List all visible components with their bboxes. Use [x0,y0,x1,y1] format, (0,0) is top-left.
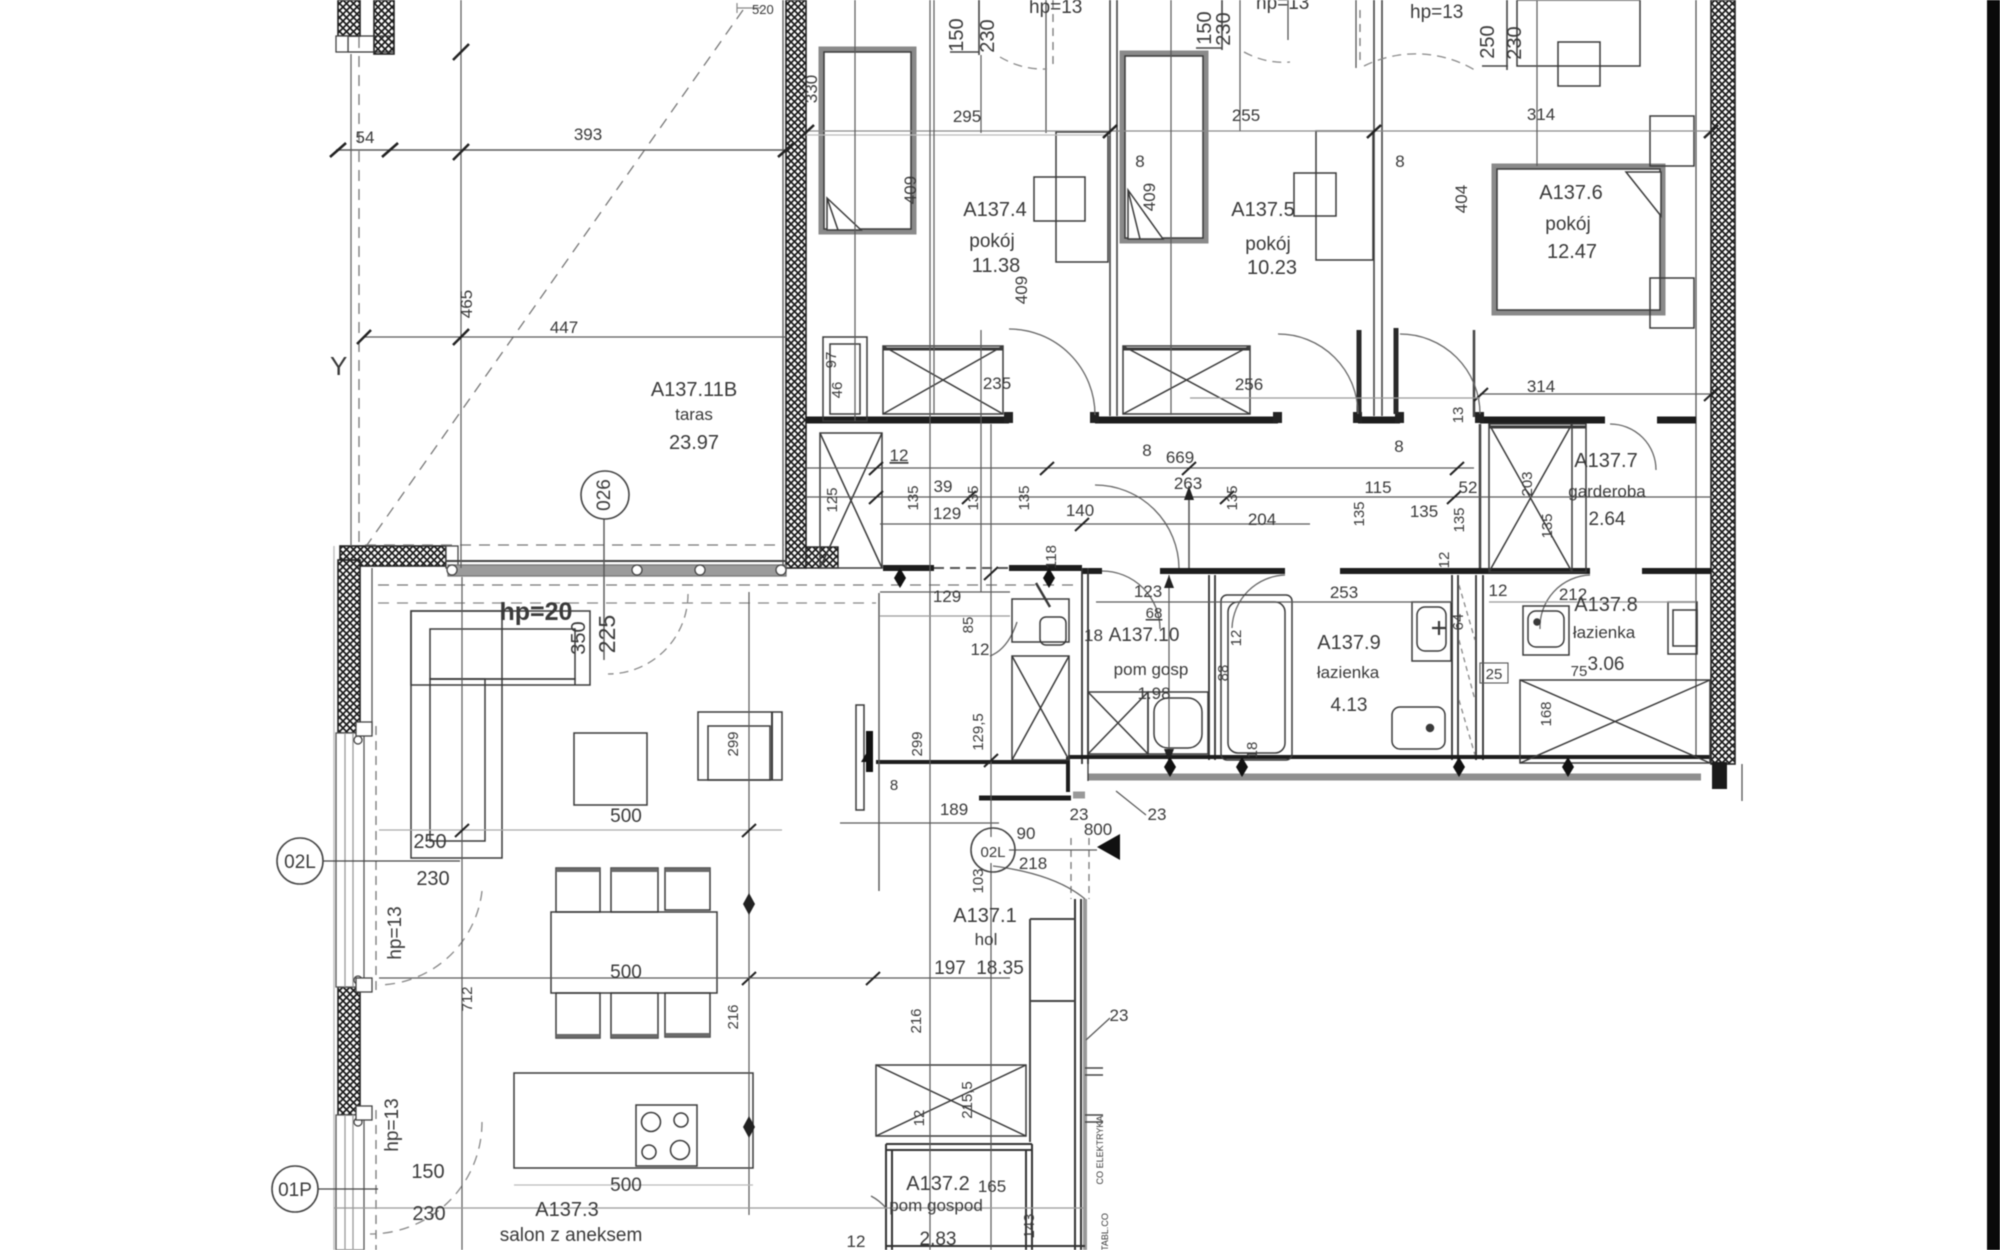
bed A137.6 [1494,166,1663,313]
verticals in bedrooms (dim extension lines) [854,0,856,421]
svg-text:150: 150 [411,1161,444,1183]
svg-text:135: 135 [1539,513,1556,538]
svg-text:8: 8 [890,777,898,794]
TV panel [856,705,864,810]
partition A137.5/A137.6 [1374,0,1382,416]
svg-text:A137.10: A137.10 [1109,625,1180,646]
terrace bottom hatched wall [340,546,446,566]
wardrobe (narrow) A137.4 left [823,337,867,421]
svg-text:409: 409 [1012,276,1031,304]
sink A137.9 [1412,602,1451,661]
partition A137.4/A137.5 [1110,0,1117,416]
svg-text:314: 314 [1527,377,1555,396]
svg-text:18: 18 [1244,742,1261,759]
svg-text:hp=13: hp=13 [385,906,406,959]
svg-text:64: 64 [1450,614,1467,631]
svg-text:23: 23 [1148,805,1167,824]
svg-text:230: 230 [416,868,449,890]
svg-text:135: 135 [1351,501,1368,526]
door jamb blocks on bedroom wall [1004,412,1013,423]
svg-text:pokój: pokój [1245,234,1290,255]
svg-text:230: 230 [977,19,999,52]
svg-text:500: 500 [610,806,642,827]
svg-text:314: 314 [1527,105,1555,124]
svg-text:2.83: 2.83 [920,1229,957,1250]
chairs top row [556,868,710,912]
svg-text:129: 129 [933,587,961,606]
svg-text:85: 85 [960,617,977,634]
coffee table [574,733,647,805]
right wing bottom wall [1068,755,1711,759]
svg-text:A137.5: A137.5 [1231,199,1294,221]
svg-text:12: 12 [911,1110,928,1127]
dim 263 vertical arrow [1188,486,1190,568]
circles [581,471,629,519]
hall/A137.10 divider wall [1082,568,1088,764]
svg-text:520: 520 [752,2,774,17]
svg-text:02L: 02L [980,844,1005,861]
svg-text:393: 393 [574,125,602,144]
armchair [698,712,782,780]
svg-text:10.23: 10.23 [1247,257,1297,279]
svg-text:hp=13: hp=13 [1410,2,1463,23]
entrance door [993,866,1085,899]
svg-text:1.98: 1.98 [1137,684,1170,703]
svg-text:46: 46 [829,382,846,399]
dim line 447 [363,336,786,338]
bottom long dim line y=1208 [334,1207,1085,1209]
entrance triangle [1097,834,1120,860]
svg-text:hp=20: hp=20 [500,598,573,626]
chairs bottom row [556,993,710,1038]
left exterior wall: hatch segment A (top) [338,560,360,733]
corridor bottom wall y=565-572 [883,565,1082,571]
svg-text:hp=13: hp=13 [382,1098,403,1151]
dim line y=401 bottom of A137.6 / second 314 [1190,397,1480,399]
svg-text:197: 197 [934,958,966,979]
svg-text:12: 12 [1489,581,1508,600]
svg-text:23: 23 [1110,1006,1129,1025]
svg-text:669: 669 [1166,448,1194,467]
svg-text:447: 447 [550,318,578,337]
svg-text:230: 230 [412,1203,445,1225]
svg-text:225: 225 [594,615,620,653]
bedroom top door markers A137.5 [1196,0,1222,50]
svg-text:23.97: 23.97 [669,432,719,454]
dim line 189/90 y=823 [840,822,999,824]
corridor dim chains [806,467,1474,469]
svg-text:8: 8 [1135,152,1144,171]
garderoba left wall [1479,424,1482,568]
svg-text:409: 409 [901,176,920,204]
svg-text:12: 12 [847,1232,866,1250]
dining table [551,912,717,993]
svg-text:135: 135 [1224,485,1241,510]
top terrace mini-dim [737,3,761,13]
svg-text:125: 125 [824,487,841,512]
bedroom top door markers A137.6 [1482,0,1508,70]
svg-text:299: 299 [725,731,742,756]
bathtub A137.9 [1221,595,1292,760]
svg-text:CO ELEKTRYKA: CO ELEKTRYKA [1095,1116,1105,1185]
desk+chair A137.5 [1316,131,1373,260]
X wardrobe A137.5 [1123,346,1250,414]
svg-text:129,5: 129,5 [970,713,987,751]
lower chains below corridor [880,591,1010,593]
svg-text:A137.6: A137.6 [1539,182,1602,204]
top-left U-shaped hatched wall stubs [338,0,360,36]
svg-text:212: 212 [1559,585,1587,604]
sofa salon [411,611,590,685]
svg-text:18: 18 [1084,626,1103,645]
entrance area walls [979,796,1071,801]
toilet A137.8 [1668,602,1697,654]
svg-text:215,5: 215,5 [959,1081,976,1119]
svg-text:pom gosp: pom gosp [1114,660,1189,679]
svg-text:235: 235 [983,374,1011,393]
svg-text:12: 12 [971,640,990,659]
svg-text:garderoba: garderoba [1568,482,1646,501]
salon/hall divider line [878,593,880,891]
interior door arcs [1009,329,1095,415]
svg-text:026: 026 [594,479,615,511]
toilet A137.9 [1392,707,1445,749]
svg-text:135: 135 [1410,502,1438,521]
svg-text:168: 168 [1538,701,1555,726]
right exterior hatched wall [1711,0,1735,764]
svg-text:39: 39 [934,477,953,496]
desk+chair A137.6 [1517,0,1640,66]
svg-text:4.13: 4.13 [1331,695,1368,716]
svg-text:118: 118 [1043,545,1060,569]
svg-text:A137.2: A137.2 [906,1173,969,1195]
svg-text:taras: taras [675,405,713,424]
left wall window W1 (french door) [336,733,364,987]
X wardrobe A137.4 [883,346,1003,414]
svg-text:350: 350 [568,621,590,654]
svg-text:pokój: pokój [969,231,1014,252]
svg-text:2.64: 2.64 [1589,509,1626,530]
black diamond ticks on bottom wall [1164,757,1574,777]
svg-text:295: 295 [953,107,981,126]
svg-text:129: 129 [933,504,961,523]
svg-text:230: 230 [1504,26,1526,59]
X wardrobe hall (A137.1) [1012,599,1069,642]
svg-text:500: 500 [610,962,642,983]
top dim lines y=131 across bedrooms [806,130,1711,132]
svg-text:hp=13: hp=13 [1029,0,1082,18]
X box A137.8 bottom [1520,680,1710,763]
salon dim ticks [379,829,782,831]
left exterior wall: hatch segment B (middle) [338,987,360,1115]
svg-text:299: 299 [909,731,926,756]
dashed door arcs of left windows [378,891,482,985]
door pocket bars [1359,328,1396,414]
A137.6 inner wall face line [1695,0,1697,758]
svg-text:150: 150 [946,18,968,51]
svg-text:12: 12 [890,446,909,465]
svg-text:143: 143 [1021,1213,1038,1238]
svg-text:A137.7: A137.7 [1574,450,1637,472]
svg-text:A137.9: A137.9 [1317,632,1380,654]
terrace dashed boundary [358,37,360,545]
svg-text:165: 165 [978,1177,1006,1196]
left wall window W2 [336,1115,364,1250]
desk+chair A137.4 [1056,132,1108,262]
A137.9 right wall and shaft [1452,575,1483,760]
left wall inner face [371,568,373,733]
svg-text:404: 404 [1452,185,1471,213]
hall verticals [990,424,992,837]
bathroom block top wall [1082,568,1711,574]
svg-text:75: 75 [1571,663,1588,680]
svg-text:3.06: 3.06 [1588,654,1625,675]
svg-text:hp=13: hp=13 [1256,0,1309,14]
A137.2 walls [886,1144,1032,1150]
svg-text:204: 204 [1248,510,1276,529]
svg-text:8: 8 [1142,441,1151,460]
svg-text:łazienka: łazienka [1573,623,1636,642]
svg-text:115: 115 [1364,478,1391,497]
vertical dim line 465 x=461 [460,0,462,568]
bed A137.5 [1122,53,1206,241]
svg-text:256: 256 [1235,375,1263,394]
bedroom bottom wall y=417-423 segments [806,417,1696,424]
svg-text:25: 25 [1486,666,1503,683]
top horizontal dim line 54/393 [336,149,786,151]
svg-text:500: 500 [610,1175,642,1196]
svg-text:23: 23 [1070,805,1089,824]
bedroom top door markers A137.4 [950,0,979,55]
terrace sliding window band [446,560,786,562]
terrace right hatched wall [786,0,806,568]
svg-text:203: 203 [1519,471,1536,496]
X box A137.10 + washer [1088,692,1148,754]
svg-text:12.47: 12.47 [1547,241,1597,263]
tiny sink A137.10 top [1040,617,1066,645]
svg-text:135: 135 [1451,507,1468,532]
svg-text:123: 123 [1134,582,1162,601]
svg-text:140: 140 [1066,501,1094,520]
svg-text:88: 88 [1215,665,1232,682]
svg-text:97: 97 [823,352,840,369]
svg-text:8: 8 [1395,152,1404,171]
sink A137.8 [1523,606,1569,655]
svg-text:18.35: 18.35 [976,958,1024,979]
X wardrobe corridor west [820,433,882,568]
svg-text:90: 90 [1017,824,1036,843]
svg-text:hol: hol [975,930,998,949]
svg-text:pokój: pokój [1545,214,1590,235]
hall bottom-left wall under wardrobe [876,760,1069,764]
svg-text:A137.4: A137.4 [963,199,1026,221]
svg-text:12: 12 [1436,552,1453,569]
A137.10 vertical dim [1168,575,1170,762]
svg-text:Y: Y [330,351,347,381]
svg-text:A137.1: A137.1 [953,905,1016,927]
svg-text:68: 68 [1146,605,1163,622]
svg-text:52: 52 [1459,478,1478,497]
A137.2 door arc [871,1196,886,1208]
svg-text:135: 135 [905,485,922,510]
far-right solid black edge bar [1987,0,2000,1250]
A137.10 / A137.9 divider [1209,575,1215,760]
svg-text:A137.3: A137.3 [535,1199,598,1221]
X wardrobe hall bottom [876,1065,1026,1136]
svg-text:A137.11B: A137.11B [651,379,737,401]
svg-text:103: 103 [970,868,987,893]
svg-text:253: 253 [1330,583,1358,602]
kitchen island [514,1073,753,1168]
svg-text:255: 255 [1232,106,1260,125]
salon top dashed lines [378,584,1075,586]
svg-text:216: 216 [725,1004,742,1029]
svg-text:250: 250 [1477,25,1499,58]
terrace door swing [608,594,688,674]
bed A137.4 [821,49,914,232]
svg-text:263: 263 [1174,474,1202,493]
svg-text:135: 135 [1016,485,1033,510]
svg-text:łazienka: łazienka [1317,663,1380,682]
A137.6 left lower jamb wall [1473,330,1476,417]
svg-text:189: 189 [940,800,968,819]
leader lines for 23 labels [1086,791,1146,1040]
svg-text:pom gospod: pom gospod [889,1196,983,1215]
svg-text:12: 12 [1228,630,1245,647]
svg-text:TABL.CO: TABL.CO [1100,1213,1110,1250]
svg-text:465: 465 [457,290,476,318]
dim line y=394 garderoba 314 [1480,393,1711,395]
X wardrobe garderoba A137.7 [1489,424,1586,572]
svg-text:218: 218 [1019,854,1047,873]
svg-text:135: 135 [965,485,982,510]
bedside tables A137.6 [1650,116,1694,166]
svg-text:250: 250 [413,831,446,853]
svg-text:216: 216 [908,1008,925,1033]
svg-text:02L: 02L [284,852,316,873]
svg-text:230: 230 [1213,12,1235,45]
hall dim y=978 [379,977,1010,979]
svg-text:13: 13 [1450,407,1467,424]
svg-text:330: 330 [802,75,821,103]
svg-text:54: 54 [356,128,375,147]
svg-text:salon z aneksem: salon z aneksem [500,1225,643,1246]
svg-text:8: 8 [1394,437,1403,456]
svg-text:11.38: 11.38 [972,255,1021,277]
svg-text:01P: 01P [278,1180,312,1201]
500 dim line at island [514,1184,753,1186]
svg-text:712: 712 [459,986,476,1011]
misc ticks at corridor wall [894,568,1055,588]
svg-text:409: 409 [1140,183,1159,211]
